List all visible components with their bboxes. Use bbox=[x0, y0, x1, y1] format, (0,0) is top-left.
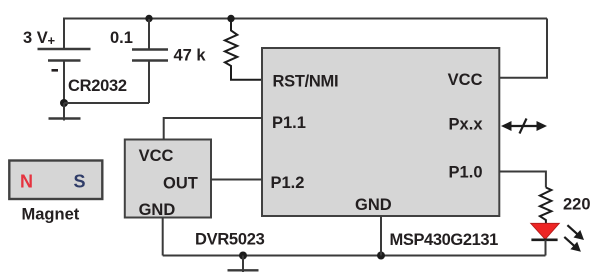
wire: MSP430 GND down bbox=[380, 216, 382, 256]
svg-text:+: + bbox=[48, 33, 56, 48]
LED emission arrow 1 bbox=[567, 225, 584, 240]
svg-text:3 V: 3 V bbox=[23, 29, 48, 47]
svg-text:VCC: VCC bbox=[448, 71, 483, 89]
LED emission arrow 2 bbox=[564, 237, 581, 252]
svg-text:Magnet: Magnet bbox=[22, 206, 80, 224]
ground: bottom ground symbol bbox=[228, 256, 259, 273]
wire: LED cathode to ground rail bbox=[545, 240, 547, 256]
wire: DVR5023 GND down bbox=[162, 218, 164, 256]
wire: battery negative lead down bbox=[63, 61, 65, 104]
svg-text:220: 220 bbox=[563, 196, 591, 214]
svg-text:S: S bbox=[74, 171, 86, 191]
svg-text:P1.0: P1.0 bbox=[449, 163, 483, 181]
LED D1 cathode bar bbox=[531, 239, 557, 242]
resistor R1 47k bbox=[225, 19, 262, 80]
wire: VCC drop to MSP430 VCC pin bbox=[500, 19, 547, 78]
magnet body bbox=[9, 161, 102, 200]
wire: DVR5023 VCC up to P1.1 bbox=[164, 118, 262, 140]
battery BT1 bottom plate (-) bbox=[48, 59, 81, 62]
capacitor C1 0.1 bbox=[132, 19, 168, 103]
label: - (battery negative) bbox=[52, 69, 59, 72]
svg-text:DVR5023: DVR5023 bbox=[195, 231, 265, 249]
svg-text:MSP430G2131: MSP430G2131 bbox=[390, 231, 499, 249]
wire: OUT to P1.2 bbox=[211, 179, 262, 181]
svg-text:GND: GND bbox=[139, 201, 176, 219]
svg-text:Px.x: Px.x bbox=[449, 115, 484, 133]
junction: top rail at resistor R1 bbox=[227, 15, 234, 22]
svg-text:RST/NMI: RST/NMI bbox=[273, 73, 339, 91]
junction: ground rail at ground symbol bbox=[239, 252, 247, 260]
transistor U2 DVR5023 body bbox=[125, 140, 211, 218]
op-amp U1 MSP430G2131 body bbox=[262, 48, 499, 216]
svg-text:N: N bbox=[20, 171, 33, 191]
junction: ground rail at MSP430 GND bbox=[377, 252, 385, 260]
svg-text:47 k: 47 k bbox=[174, 46, 207, 64]
wire: P1.0 to resistor R2 bbox=[499, 172, 546, 188]
wire: battery node to capacitor bottom bbox=[64, 102, 149, 104]
svg-text:VCC: VCC bbox=[139, 147, 174, 165]
svg-text:CR2032: CR2032 bbox=[68, 77, 127, 95]
bus arrow: Px.x bidirectional bbox=[501, 119, 547, 134]
svg-text:OUT: OUT bbox=[163, 175, 198, 193]
svg-text:P1.1: P1.1 bbox=[272, 114, 306, 132]
svg-text:GND: GND bbox=[355, 196, 392, 214]
svg-text:P1.2: P1.2 bbox=[271, 174, 305, 192]
wire: bottom ground rail bbox=[163, 255, 546, 257]
junction: top rail at capacitor bbox=[145, 15, 152, 22]
wire: top VCC rail bbox=[64, 19, 547, 50]
resistor R2 220 bbox=[540, 188, 552, 225]
LED D1 anode triangle bbox=[531, 223, 559, 239]
battery BT1 CR2032 top plate (+) bbox=[38, 48, 91, 51]
ground: left ground symbol bbox=[49, 103, 81, 121]
junction: battery negative node bbox=[60, 99, 68, 107]
svg-text:0.1: 0.1 bbox=[110, 29, 133, 47]
